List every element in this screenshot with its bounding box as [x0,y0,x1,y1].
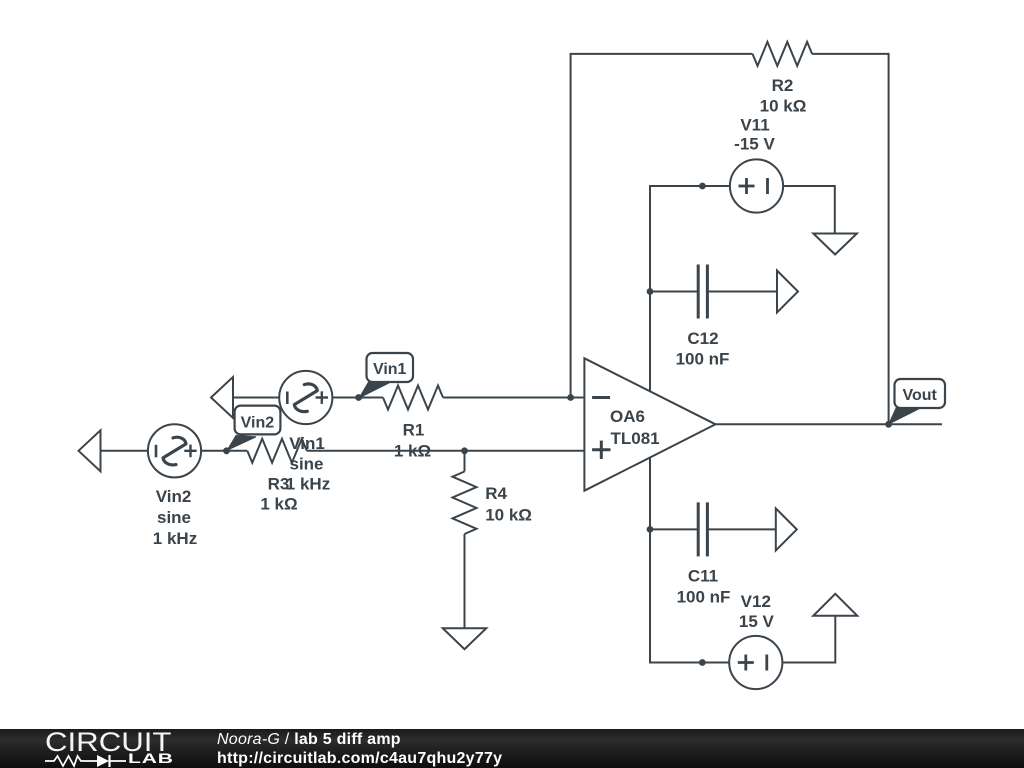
CircuitLab logo text [45,729,171,756]
title text [217,732,401,748]
node Vin2 flag junction [223,447,230,454]
svg-text:10 kΩ: 10 kΩ [760,97,807,116]
wire C12 left [650,291,698,293]
svg-text:Vin2: Vin2 [241,414,275,431]
wire Vin1 to R1 [332,397,383,399]
ground for V11 [813,234,857,255]
wire R1 to op-amp [443,397,584,399]
svg-text:Vout: Vout [903,387,938,404]
wire V11 right [783,185,835,187]
node V12 left junction [699,659,706,666]
svg-text:C11: C11 [688,567,718,586]
node R4 junction [461,447,468,454]
flag Vout tail [889,406,919,424]
flag at Vin2 source [79,430,101,471]
flag Vin2 [235,406,281,435]
wire feedback top left segment [570,53,753,55]
wire R3 to op-amp [307,450,585,452]
svg-text:-15 V: -15 V [734,135,775,154]
wire Vin2 left [101,450,148,452]
svg-text:V11: V11 [740,116,769,135]
node feedback junction [567,394,574,401]
source Vin1 [279,371,332,424]
flag Vin2 tail [227,436,256,451]
capacitor C11 [697,502,700,556]
power flag for V12 [813,594,857,616]
footer bar [0,729,1024,768]
resistor R4 [453,472,477,535]
flag at Vin1 source [211,377,233,418]
node C11 junction [647,526,654,533]
flag Vout [895,379,946,408]
url text [217,751,502,767]
CircuitLab logo mark [45,754,127,768]
flag Vin1 tail [359,382,388,398]
svg-text:100 nF: 100 nF [677,588,731,607]
svg-text:1 kHz: 1 kHz [153,529,197,548]
flag at C11 [776,508,797,550]
svg-text:sine: sine [157,508,191,527]
ground for R4 [443,628,487,649]
op-amp plus sign [592,448,610,451]
svg-text:10 kΩ: 10 kΩ [485,506,532,525]
svg-text:OA6: OA6 [610,407,645,426]
svg-text:1 kHz: 1 kHz [286,475,330,494]
svg-text:Vin1: Vin1 [373,361,407,378]
svg-text:1 kΩ: 1 kΩ [260,495,297,514]
wire output [716,423,943,425]
wire V11 left [650,185,730,187]
resistor R3 [247,439,306,463]
svg-text:15 V: 15 V [739,612,775,631]
svg-text:R3: R3 [268,475,290,494]
wire C11 right [707,528,775,530]
wire C12 right [707,291,777,293]
resistor R2 [753,42,813,66]
node Vout junction [885,421,892,428]
wire V12 right [782,662,835,664]
wire R4 top lead [464,451,466,472]
svg-text:R1: R1 [403,421,425,440]
wire feedback right vertical [888,53,890,424]
node C12 junction [647,288,654,295]
node V11 left junction [699,183,706,190]
resistor R1 [383,386,443,410]
voltage source V12 [729,636,782,689]
source Vin2 [148,424,201,477]
svg-text:100 nF: 100 nF [676,350,730,369]
op-amp OA6 [584,358,715,490]
node Vin1 flag junction [355,394,362,401]
svg-text:R4: R4 [485,484,507,503]
svg-text:V12: V12 [741,592,771,611]
wire lower rail [649,458,651,663]
wire C11 left [650,528,698,530]
wire Vin1 left [233,397,279,399]
wire V12 left [649,662,729,664]
flag Vin1 [367,353,414,382]
voltage source V11 [730,159,783,212]
svg-text:TL081: TL081 [611,429,660,448]
svg-text:R2: R2 [772,76,794,95]
op-amp minus sign [592,396,610,399]
wire feedback left vertical [570,54,572,398]
svg-text:C12: C12 [687,329,718,348]
svg-text:Vin2: Vin2 [156,487,192,506]
wire Vin2 to R3 [201,450,247,452]
capacitor C12 [697,265,700,319]
wire R4 bottom lead [464,534,466,628]
wire V11 rail down [649,185,651,392]
flag at C12 [777,271,798,313]
wire feedback top right segment [812,53,889,55]
